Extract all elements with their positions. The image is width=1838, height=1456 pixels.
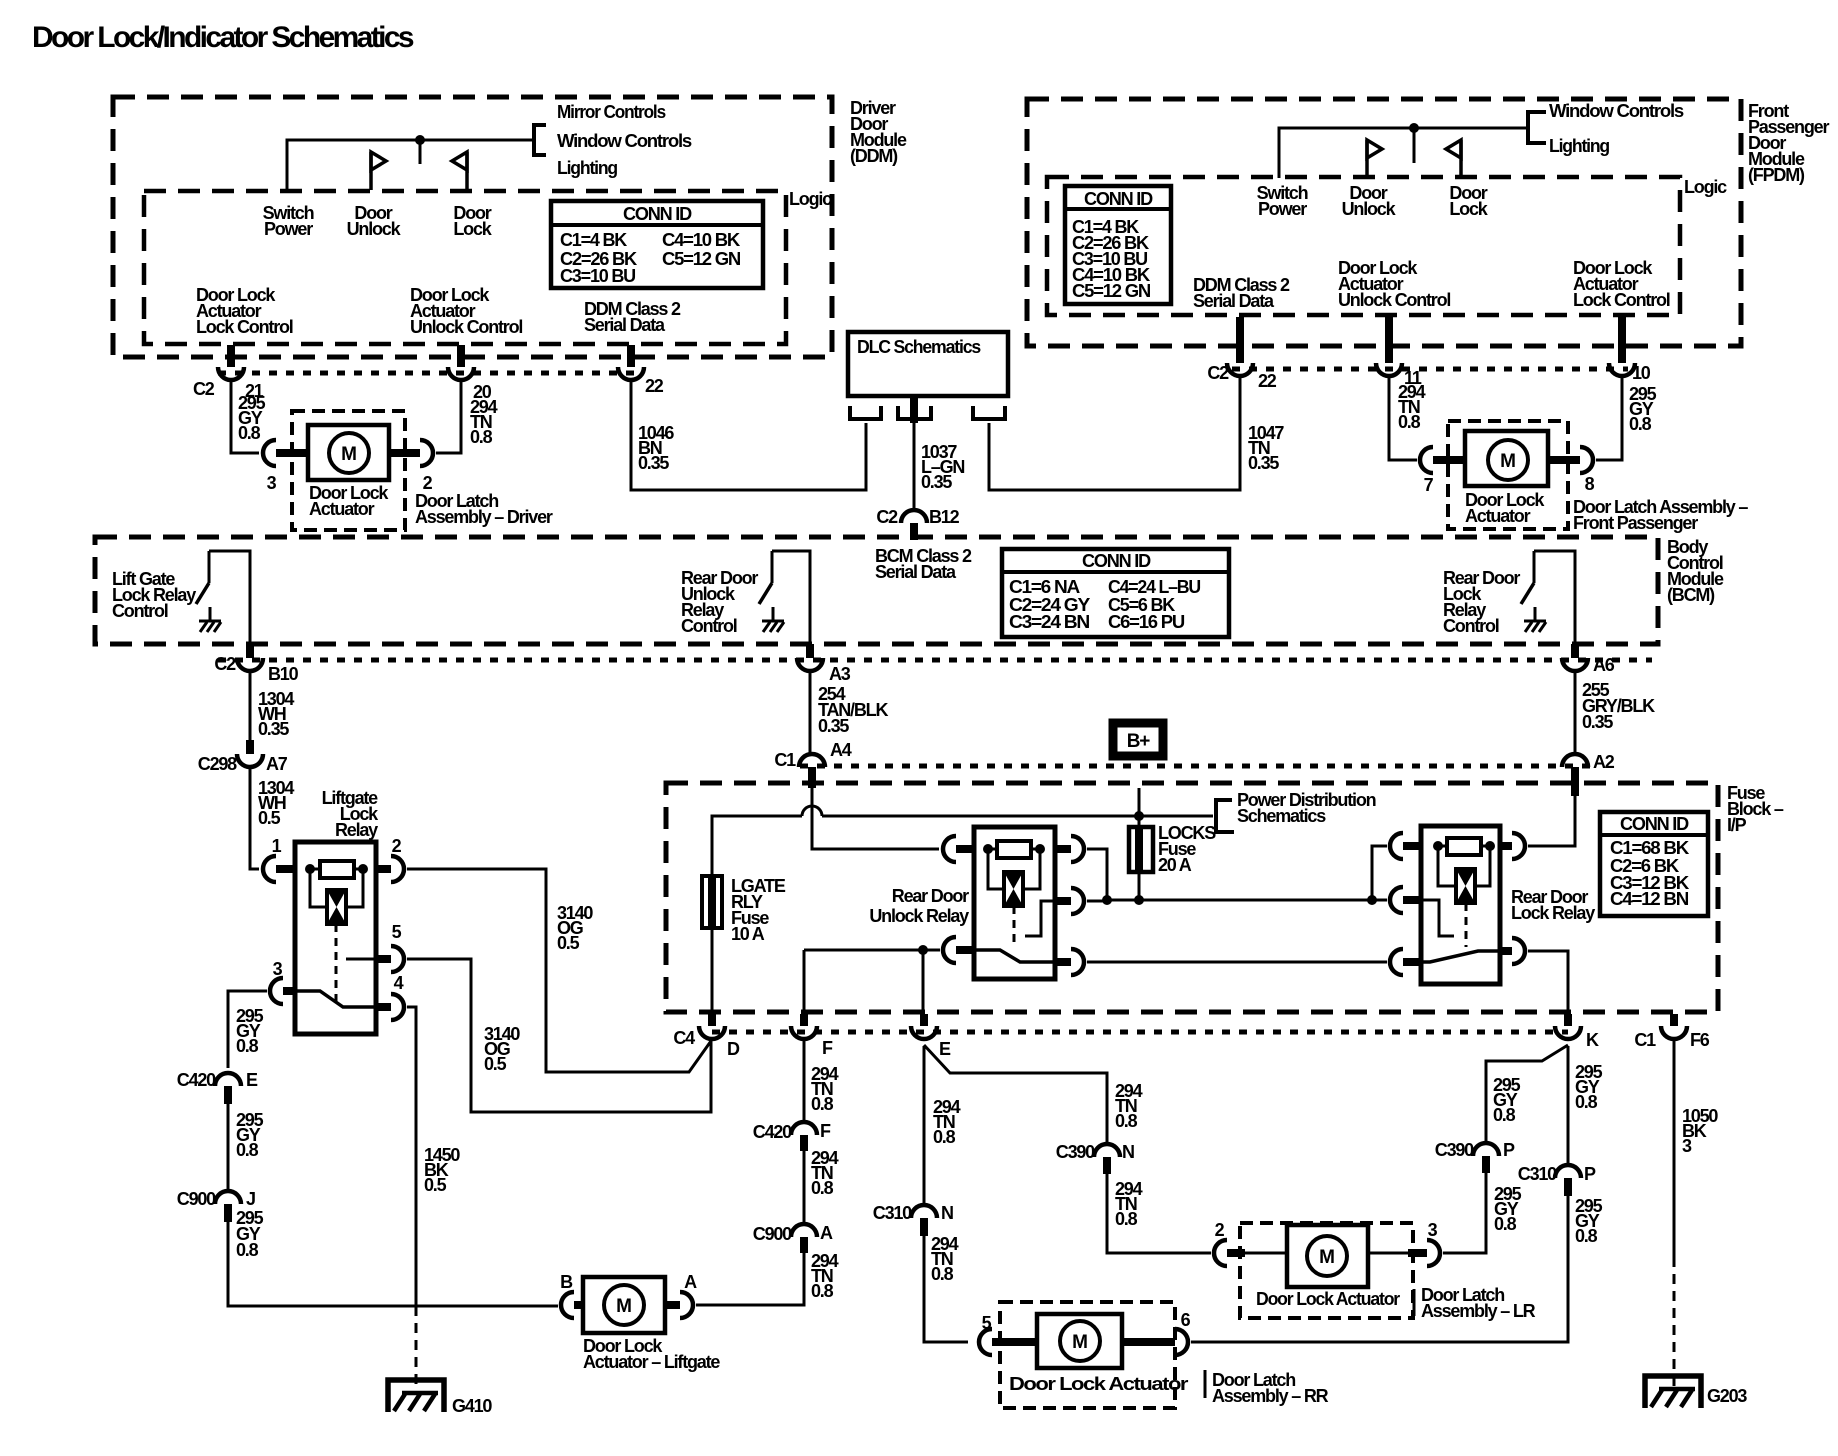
svg-text:0.35: 0.35 (1248, 453, 1279, 473)
CONN ID table DDM (551, 201, 763, 288)
connector row BCM dotted line (218, 658, 1652, 663)
CONN ID table fuse block (1600, 812, 1708, 916)
svg-text:F: F (822, 1038, 833, 1058)
fixed contact connector unlock relay middle right pin (1055, 897, 1071, 905)
bottom left pin connector unlock relay (943, 937, 956, 963)
wire B+ feed down to LOCKS fuse (1138, 788, 1141, 827)
connector C2 pin 10 FPDM (1618, 317, 1626, 363)
connector row C2 DDM dotted line (218, 371, 634, 376)
wire 1046 BN from pin 22 to DLC (631, 380, 866, 490)
svg-text:E: E (246, 1070, 258, 1090)
connector E fuse block (920, 1014, 928, 1026)
svg-text:A2: A2 (1593, 752, 1615, 772)
connector K fuse block (1564, 1014, 1572, 1026)
wire 295 GY K down to C310 P (1567, 1046, 1570, 1164)
svg-text:A: A (820, 1223, 833, 1243)
svg-text:Lock Control: Lock Control (1573, 290, 1670, 310)
pin 3 connector liftgate relay (270, 978, 283, 1004)
connector row C4 dotted line (712, 1030, 1568, 1035)
module box Driver Door Module (DDM) (113, 97, 832, 357)
connector A6 BCM (1571, 644, 1579, 658)
connector C310 P (1555, 1165, 1581, 1178)
svg-text:0.8: 0.8 (933, 1127, 956, 1147)
svg-text:0.8: 0.8 (1115, 1209, 1138, 1229)
wire 255 GRY/BLK A6 to A2 (1574, 671, 1577, 753)
ground G410 (388, 1380, 444, 1412)
svg-text:Front Passenger: Front Passenger (1573, 513, 1698, 533)
fuse LOCKS Fuse 20 A (1129, 827, 1153, 872)
svg-text:0.5: 0.5 (557, 933, 580, 953)
svg-text:3: 3 (273, 959, 283, 979)
svg-text:3: 3 (1682, 1136, 1692, 1156)
wire power rail up to lock coil (1372, 846, 1387, 900)
relay solenoid coil lock relay (1438, 846, 1456, 886)
svg-text:0.8: 0.8 (238, 423, 261, 443)
wire A4 to rear door unlock relay coil (812, 788, 939, 849)
pin 5 connector RR actuator (979, 1329, 992, 1355)
relay contact blade unlock relay (974, 950, 1055, 962)
svg-text:I/P: I/P (1727, 815, 1747, 835)
motor Door Lock Actuator RR (1037, 1314, 1122, 1368)
wire 3140 OG from pin 2 to C4 D (407, 869, 711, 1072)
svg-text:C2: C2 (214, 654, 236, 674)
svg-text:0.8: 0.8 (1398, 412, 1421, 432)
svg-text:C310: C310 (873, 1203, 912, 1223)
module box Fuse Block I/P (666, 783, 1718, 1012)
wire 295 GY C310 P to RR actuator pin 6 (1191, 1196, 1568, 1342)
svg-text:Rear Door: Rear Door (892, 886, 969, 906)
svg-text:Window Controls: Window Controls (1549, 101, 1684, 121)
svg-text:A6: A6 (1593, 655, 1615, 675)
relay box Rear Door Lock Relay (1421, 826, 1500, 984)
svg-text:0.8: 0.8 (1575, 1226, 1598, 1246)
svg-text:0.8: 0.8 (1575, 1092, 1598, 1112)
svg-text:C1=4 BK: C1=4 BK (560, 230, 627, 250)
wire unlock relay to lock relay bottom (1087, 961, 1387, 964)
svg-text:Lighting: Lighting (557, 158, 617, 178)
wire 295 GY pin 3 to C420 E (228, 991, 267, 1068)
svg-text:0.8: 0.8 (236, 1036, 259, 1056)
svg-text:Logic: Logic (1684, 177, 1727, 197)
junction dot E branch (918, 945, 928, 955)
svg-text:CONN ID: CONN ID (623, 204, 692, 224)
connector C2 pin 22 (627, 345, 635, 367)
svg-text:0.8: 0.8 (236, 1140, 259, 1160)
svg-text:Mirror Controls: Mirror Controls (557, 102, 666, 122)
bottom right pin connector lock relay (1500, 947, 1512, 955)
svg-text:Control: Control (681, 616, 737, 636)
junction dot DDM switch power (415, 135, 425, 145)
svg-text:0.8: 0.8 (811, 1281, 834, 1301)
fuse LGATE RLY Fuse 10 A (702, 876, 722, 928)
svg-text:A: A (684, 1272, 697, 1292)
connector C420 F (791, 1122, 817, 1135)
svg-text:3: 3 (267, 473, 277, 493)
bracket mirror/window/lighting (534, 125, 546, 155)
svg-text:Door Lock Actuator: Door Lock Actuator (1009, 1374, 1188, 1394)
svg-text:CONN ID: CONN ID (1082, 551, 1151, 571)
svg-text:C4=24 L–BU: C4=24 L–BU (1108, 577, 1200, 597)
svg-text:Door Lock/Indicator Schematics: Door Lock/Indicator Schematics (32, 21, 414, 54)
DLC bracket pin 1 (850, 406, 881, 419)
svg-text:(DDM): (DDM) (850, 146, 898, 166)
svg-text:C3=10 BU: C3=10 BU (560, 266, 635, 286)
wire from pin 5 to connector D branch (407, 959, 711, 1112)
svg-text:22: 22 (645, 376, 664, 396)
pin 4 connector liftgate relay (376, 1003, 391, 1011)
svg-text:M: M (1072, 1332, 1088, 1353)
relay coil resistor liftgate (305, 864, 315, 874)
wire 294 TN C310 N to RR actuator pin 5 (924, 1236, 968, 1342)
svg-text:2: 2 (423, 473, 433, 493)
svg-text:A4: A4 (830, 740, 852, 760)
wire 295 GY C390 P to LR actuator pin 3 (1443, 1173, 1486, 1253)
switch flag Door Unlock DDM (369, 152, 373, 190)
relay plunger dashed link unlock relay (1013, 906, 1016, 947)
svg-text:6: 6 (1181, 1310, 1191, 1330)
switch flag Door Lock DDM (465, 152, 469, 190)
relay coil resistor unlock relay (983, 844, 993, 854)
switch flag Door Lock FPDM (1459, 140, 1463, 178)
coil left pin connector lock relay (1390, 833, 1403, 859)
svg-text:Actuator – Liftgate: Actuator – Liftgate (583, 1352, 720, 1372)
svg-text:CONN ID: CONN ID (1620, 814, 1689, 834)
svg-text:0.8: 0.8 (236, 1240, 259, 1260)
component box Door Lock Actuator driver (dashed) (292, 411, 405, 530)
svg-text:Serial Data: Serial Data (584, 315, 666, 335)
wire 295 GY from pin 21 to actuator pin 3 (231, 380, 259, 453)
svg-text:10: 10 (1632, 363, 1651, 383)
svg-text:G203: G203 (1707, 1386, 1747, 1406)
svg-text:F: F (820, 1121, 831, 1141)
svg-text:0.8: 0.8 (931, 1264, 954, 1284)
relay plunger dashed link lock relay (1465, 903, 1468, 947)
svg-text:K: K (1586, 1030, 1599, 1050)
wire 294 TN E down to C310 N (923, 1046, 926, 1204)
pin 3 connector driver actuator (263, 440, 276, 466)
module box Body Control Module (BCM) (95, 537, 1658, 644)
divider bar RR latch label (1204, 1370, 1207, 1398)
wire lock relay control to A6 (1534, 551, 1575, 644)
connector C900 J (215, 1191, 241, 1204)
connector C2 pin 22 FPDM (1236, 317, 1244, 363)
svg-text:A3: A3 (829, 664, 851, 684)
power rail wire to lock relay branch (1107, 899, 1372, 902)
svg-text:Relay: Relay (335, 820, 378, 840)
junction dot power feed at B+ drop (1134, 811, 1144, 821)
svg-text:5: 5 (982, 1313, 992, 1333)
svg-text:C1: C1 (774, 750, 796, 770)
svg-text:0.8: 0.8 (811, 1178, 834, 1198)
component box Door Lock Actuator LR (dashed) (1240, 1223, 1413, 1318)
CONN ID table BCM (1002, 549, 1229, 637)
pin 1 connector liftgate relay (263, 856, 276, 882)
component box Door Lock Actuator front passenger (dashed) (1448, 421, 1568, 529)
svg-text:C6=16 PU: C6=16 PU (1108, 612, 1184, 632)
svg-text:C2: C2 (876, 507, 898, 527)
connector C420 E (215, 1073, 241, 1086)
ground wire dashed to G203 (1673, 1257, 1676, 1389)
svg-text:0.8: 0.8 (1493, 1105, 1516, 1125)
wire 294 TN F to C420 F (803, 1039, 806, 1121)
svg-text:Control: Control (1443, 616, 1499, 636)
svg-text:C298: C298 (198, 754, 237, 774)
svg-text:C1: C1 (1634, 1030, 1656, 1050)
svg-text:C390: C390 (1056, 1142, 1095, 1162)
wire 1304 WH 0.5 A7 to liftgate relay pin 1 (250, 767, 259, 869)
box DLC Schematics (848, 332, 1008, 396)
connector C2 pin 11 FPDM (1385, 317, 1393, 363)
svg-text:B+: B+ (1127, 731, 1151, 752)
svg-text:0.35: 0.35 (818, 716, 849, 736)
svg-text:C1=6 NA: C1=6 NA (1009, 577, 1080, 597)
svg-text:Unlock Relay: Unlock Relay (869, 906, 969, 926)
connector C2 pin B10 (246, 644, 254, 658)
svg-text:20 A: 20 A (1158, 855, 1192, 875)
module box Front Passenger Door Module (FPDM) (1027, 99, 1741, 346)
svg-text:DLC Schematics: DLC Schematics (857, 337, 981, 357)
bracket window/lighting FPDM (1528, 112, 1546, 143)
svg-text:7: 7 (1424, 475, 1434, 495)
pin 3 connector LR actuator (1368, 1252, 1408, 1255)
logic box DDM (144, 191, 786, 344)
wire 1050 BK F6 to ground (1673, 1039, 1676, 1257)
ground internal BCM liftgate driver (199, 620, 221, 623)
connector A3 BCM (806, 644, 814, 658)
svg-text:0.8: 0.8 (1115, 1111, 1138, 1131)
wire stub from junction into logic (419, 140, 422, 164)
fixed contact connector lock relay middle left pin (1372, 899, 1387, 902)
connector C390 P (1473, 1143, 1499, 1156)
svg-text:C4=12 BN: C4=12 BN (1610, 889, 1688, 909)
motor Door Lock Actuator liftgate (583, 1277, 665, 1333)
svg-text:G410: G410 (452, 1396, 492, 1416)
svg-text:Schematics: Schematics (1237, 806, 1326, 826)
svg-text:CONN ID: CONN ID (1084, 189, 1153, 209)
pin 8 connector FP actuator (1548, 456, 1580, 464)
connector F fuse block (800, 1014, 808, 1026)
wire E drop from unlock contact (922, 950, 925, 1014)
relay solenoid coil unlock relay (988, 849, 1004, 889)
wire 1037 L-GN from DLC to BCM (910, 398, 918, 423)
wire 295 GY from FP actuator pin 8 to pin 10 (1596, 376, 1622, 460)
svg-text:3: 3 (1428, 1220, 1438, 1240)
connector C390 N (1094, 1144, 1120, 1157)
svg-text:2: 2 (1215, 1220, 1225, 1240)
bottom left pin connector lock relay (1390, 949, 1403, 975)
connector row C2 FPDM dotted line (1232, 367, 1628, 372)
svg-text:M: M (341, 444, 357, 465)
junction dot lock relay feed (1367, 895, 1377, 905)
wire 294 TN E diagonal branch to C390 N (924, 1045, 1107, 1143)
svg-text:C390: C390 (1435, 1140, 1474, 1160)
svg-text:0.35: 0.35 (921, 472, 952, 492)
coil right pin connector unlock relay (1055, 845, 1071, 853)
reference bracket power distribution (1216, 800, 1234, 832)
svg-text:D: D (727, 1039, 740, 1059)
svg-text:Unlock Control: Unlock Control (1338, 290, 1450, 310)
svg-text:C900: C900 (177, 1189, 216, 1209)
svg-text:B10: B10 (268, 664, 299, 684)
wire 1304 WH 0.35 B10 to C298 (249, 671, 252, 740)
svg-text:0.8: 0.8 (470, 427, 493, 447)
divider bar LR latch label (1413, 1289, 1416, 1316)
wire unlock relay control to A3 (772, 551, 810, 644)
connector C900 A (791, 1224, 817, 1237)
pin 2 connector LR actuator (1214, 1240, 1227, 1266)
switch flag Door Unlock FPDM (1365, 140, 1369, 178)
svg-text:M: M (1319, 1247, 1335, 1268)
svg-text:Unlock Control: Unlock Control (410, 317, 522, 337)
ground internal BCM unlock driver (762, 620, 784, 623)
svg-text:2: 2 (392, 836, 402, 856)
motor Door Lock Actuator LR (1245, 1252, 1287, 1255)
svg-text:(FPDM): (FPDM) (1748, 165, 1805, 185)
junction dot unlock relay power node (1102, 895, 1112, 905)
relay box Liftgate Lock Relay (295, 842, 376, 1034)
wire switch power to window controls bracket FPDM (1279, 128, 1528, 178)
svg-text:Actuator: Actuator (1465, 506, 1531, 526)
motor Door Lock Actuator front passenger (1465, 431, 1548, 486)
svg-text:Logic: Logic (789, 189, 832, 209)
CONN ID table FPDM (1065, 186, 1171, 304)
wire 1450 BK from pin 4 down to ground junction (407, 1007, 416, 1306)
svg-text:A7: A7 (266, 754, 288, 774)
wire switch power to window controls bracket (287, 140, 534, 190)
transistor switch rear door lock relay control (1533, 551, 1536, 583)
svg-text:Assembly – RR: Assembly – RR (1212, 1386, 1329, 1406)
transistor switch lift gate lock relay control (208, 551, 211, 583)
svg-text:B: B (560, 1272, 573, 1292)
svg-text:Serial Data: Serial Data (1193, 291, 1275, 311)
relay box Rear Door Unlock Relay (974, 827, 1055, 979)
svg-text:10 A: 10 A (731, 924, 765, 944)
transistor switch rear door unlock relay control (771, 551, 774, 583)
svg-text:F6: F6 (1690, 1030, 1710, 1050)
svg-text:C3=24 BN: C3=24 BN (1009, 612, 1089, 632)
wire 254 TAN/BLK A3 to A4 (809, 671, 812, 753)
svg-text:B12: B12 (929, 507, 960, 527)
svg-text:0.5: 0.5 (258, 808, 281, 828)
relay plunger dashed link liftgate (335, 924, 338, 1002)
svg-text:0.5: 0.5 (484, 1054, 507, 1074)
wire 294 TN C390 N to LR actuator pin 2 (1107, 1174, 1211, 1253)
svg-text:C1=68 BK: C1=68 BK (1610, 838, 1689, 858)
connector C4 D (708, 1014, 716, 1026)
ground wire dashed to G410 (415, 1306, 418, 1392)
svg-text:1: 1 (272, 836, 282, 856)
ground G203 (1645, 1376, 1701, 1408)
svg-text:(BCM): (BCM) (1667, 585, 1715, 605)
wire 295 GY K diagonal branch to C390 P (1486, 1045, 1568, 1141)
wire coil right pin to power node (1087, 849, 1107, 900)
svg-text:Power: Power (1258, 199, 1307, 219)
wire F drop from unlock contact (803, 950, 806, 1014)
ground internal BCM lock driver (1524, 620, 1546, 623)
connector row C1 fuse block dotted line (800, 764, 1592, 769)
wire middle right pin to power node (1087, 900, 1107, 903)
svg-text:C420: C420 (753, 1122, 792, 1142)
svg-text:0.8: 0.8 (811, 1094, 834, 1114)
svg-text:Lighting: Lighting (1549, 136, 1609, 156)
svg-text:Unlock: Unlock (1342, 199, 1397, 219)
wire 295 GY E to C900 J (227, 1104, 230, 1190)
wire 295 GY J to liftgate actuator pin B (228, 1222, 558, 1306)
svg-text:0.35: 0.35 (1582, 712, 1613, 732)
svg-text:4: 4 (394, 973, 404, 993)
connector C310 N (911, 1205, 937, 1218)
svg-text:Lock Control: Lock Control (196, 317, 293, 337)
svg-text:P: P (1503, 1140, 1515, 1160)
svg-text:C5=12 GN: C5=12 GN (662, 249, 740, 269)
relay solenoid coil liftgate (310, 869, 327, 907)
connector C2 pin 21 (227, 345, 235, 367)
relay contact blade lock relay (1421, 951, 1500, 962)
wire stub from junction FPDM (1413, 128, 1416, 163)
pin 2 connector driver actuator (389, 449, 420, 457)
pin 7 connector FP actuator (1420, 447, 1433, 473)
svg-text:J: J (246, 1189, 255, 1209)
svg-text:22: 22 (1258, 371, 1277, 391)
svg-text:N: N (941, 1203, 953, 1223)
svg-text:Actuator: Actuator (309, 499, 375, 519)
svg-text:M: M (1500, 451, 1516, 472)
svg-text:C2: C2 (193, 379, 215, 399)
wire power feed horizontal with hop over A4 wire (712, 816, 802, 876)
svg-text:C420: C420 (177, 1070, 216, 1090)
connector C298 A7 (246, 740, 254, 754)
svg-text:P: P (1584, 1164, 1596, 1184)
wire 294 TN from pin 11 to FP actuator pin 7 (1389, 376, 1417, 460)
svg-text:Lock: Lock (453, 219, 492, 239)
svg-text:C310: C310 (1518, 1164, 1557, 1184)
connector C2 pin 20 (457, 345, 465, 367)
connector C2 B12 to BCM (901, 510, 927, 523)
svg-text:Window Controls: Window Controls (557, 131, 692, 151)
svg-text:C900: C900 (753, 1224, 792, 1244)
wire lock coil to A2 (1528, 794, 1575, 846)
svg-text:Door Lock Actuator: Door Lock Actuator (1256, 1289, 1400, 1309)
svg-text:C5=12 GN: C5=12 GN (1072, 281, 1150, 301)
svg-text:C4=10 BK: C4=10 BK (662, 230, 740, 250)
svg-text:8: 8 (1585, 474, 1595, 494)
coil right pin connector lock relay (1500, 842, 1512, 850)
wire liftgate relay control to B10 (209, 551, 250, 644)
coil left pin connector unlock relay (943, 836, 956, 862)
svg-text:Assembly – Driver: Assembly – Driver (415, 507, 553, 527)
svg-text:0.35: 0.35 (258, 719, 289, 739)
logic box FPDM (1047, 177, 1680, 315)
relay contact blade liftgate (295, 991, 391, 1007)
component box Door Lock Actuator RR (dashed) (1000, 1302, 1175, 1408)
svg-text:E: E (939, 1039, 951, 1059)
svg-text:M: M (616, 1296, 632, 1317)
junction dot LOCKS fuse at power rail (1134, 895, 1144, 905)
svg-text:Assembly – LR: Assembly – LR (1421, 1301, 1536, 1321)
pin A connector liftgate actuator (665, 1301, 680, 1309)
connector A2 fuse block (1562, 754, 1588, 767)
svg-text:0.5: 0.5 (424, 1175, 447, 1195)
pin 6 connector RR actuator (1122, 1338, 1175, 1346)
DLC bracket pin 3 (973, 406, 1005, 419)
pin 5 connector liftgate relay and fixed contact (346, 958, 376, 961)
svg-text:0.35: 0.35 (638, 453, 669, 473)
svg-text:Power: Power (264, 219, 313, 239)
svg-text:Unlock: Unlock (347, 219, 402, 239)
connector C1 F6 fuse block (1670, 1014, 1678, 1026)
junction dot FPDM switch power (1409, 123, 1419, 133)
wire unlock output F/E node (804, 949, 940, 952)
